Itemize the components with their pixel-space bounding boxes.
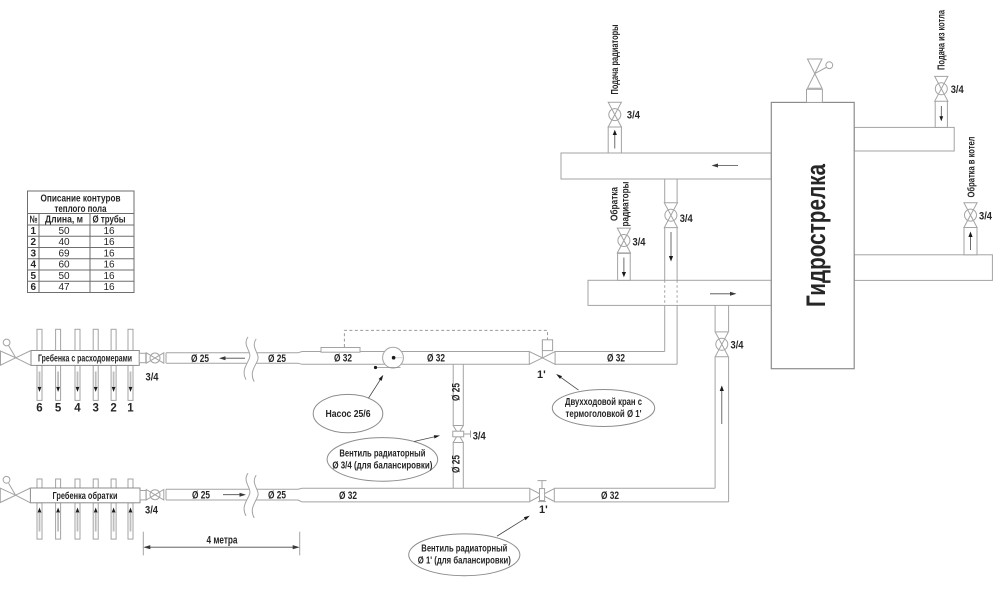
label 1' under two-way valve <box>537 369 546 381</box>
Ø labels on supply line <box>191 353 209 365</box>
pipe: floor heating supply Ø25 (manifold to break) <box>166 353 298 363</box>
svg-text:3/4: 3/4 <box>680 213 694 225</box>
svg-text:1': 1' <box>537 369 546 381</box>
callout: Вентиль радиаторный Ø 1' <box>409 516 530 576</box>
drain valve left (bowtie + handle) <box>0 476 30 502</box>
vertical label: Обратка в котел <box>966 137 978 198</box>
sensor pocket on supply pipe <box>321 348 360 353</box>
svg-text:16: 16 <box>103 282 115 293</box>
bottom stubs with up arrows <box>37 503 133 539</box>
svg-text:Ø 32: Ø 32 <box>607 353 625 365</box>
small pointer dot-line under pump <box>374 366 401 369</box>
callout: Двухходовой кран с термоголовкой <box>552 374 654 427</box>
svg-text:2: 2 <box>31 237 37 248</box>
svg-text:Описание контуров: Описание контуров <box>41 194 121 205</box>
svg-text:4: 4 <box>74 403 81 415</box>
pipe: boiler return (lower right horizontal) <box>854 255 992 281</box>
bottom stubs with flow arrows <box>37 365 133 400</box>
valve 3/4 on mid vertical pipe <box>664 203 677 228</box>
svg-text:Гребенка обратки: Гребенка обратки <box>53 490 118 502</box>
callout: Вентиль радиаторный Ø 3/4 <box>327 435 440 481</box>
svg-text:16: 16 <box>103 260 115 271</box>
svg-text:16: 16 <box>103 271 115 282</box>
valve 3/4 manifold return <box>146 490 164 501</box>
dimension 4 метра <box>143 532 299 556</box>
callout: Насос 25/6 <box>313 375 383 433</box>
svg-text:6: 6 <box>31 282 37 293</box>
svg-text:3: 3 <box>92 403 98 415</box>
svg-text:4 метра: 4 метра <box>207 535 239 547</box>
svg-text:термоголовкой Ø 1': термоголовкой Ø 1' <box>566 409 642 420</box>
pipe break symbol on supply <box>244 337 258 382</box>
svg-text:6: 6 <box>36 403 42 415</box>
svg-text:1': 1' <box>539 504 548 516</box>
svg-text:1: 1 <box>31 226 37 237</box>
manifold: Гребенка обратки <box>0 476 164 539</box>
label 1' under return valve <box>539 504 548 516</box>
valve 3/4 on Обратка радиаторы <box>617 228 630 253</box>
pipe: supply Ø32 right segment with elbow to mid vertical <box>555 352 677 365</box>
svg-text:16: 16 <box>103 237 115 248</box>
svg-text:Ø 25: Ø 25 <box>192 490 210 502</box>
svg-text:Подача из котла: Подача из котла <box>937 10 948 70</box>
valve 3/4 on Подача из котла <box>935 76 948 101</box>
svg-text:2: 2 <box>110 403 116 415</box>
taper Ø25 to Ø32 <box>298 352 302 365</box>
svg-text:16: 16 <box>103 249 115 260</box>
svg-text:50: 50 <box>58 226 70 237</box>
top stubs <box>37 329 42 350</box>
svg-text:40: 40 <box>58 237 70 248</box>
svg-text:Ø 32: Ø 32 <box>334 353 352 365</box>
flow arrow left in radiator supply pipe <box>712 164 739 168</box>
stub pipe: Подача из котла <box>935 101 947 127</box>
vertical pipe: floor heating return riser (right) <box>715 305 729 502</box>
manifold body <box>30 488 140 503</box>
svg-text:Длина, м: Длина, м <box>45 215 83 226</box>
svg-text:3: 3 <box>31 249 37 260</box>
svg-text:Ø 1' (для балансировки): Ø 1' (для балансировки) <box>418 555 511 567</box>
flow arrow right in return Ø25 <box>223 493 246 497</box>
air vent stub on separator top <box>807 89 823 102</box>
svg-text:Ø 25: Ø 25 <box>268 353 286 365</box>
svg-text:Ø трубы: Ø трубы <box>93 214 126 226</box>
pipe: boiler supply (upper right horizontal) <box>854 127 954 151</box>
svg-text:3/4: 3/4 <box>627 110 641 122</box>
svg-text:Ø 25: Ø 25 <box>268 490 286 502</box>
pipe: return Ø32 right segment with elbow up <box>554 488 728 502</box>
vertical label: Подача радиаторы <box>610 25 621 95</box>
svg-text:60: 60 <box>58 260 70 271</box>
balancing valve 3/4 on branch (bowtie with stem) <box>453 426 471 443</box>
svg-text:Ø 32: Ø 32 <box>601 490 619 502</box>
pipe: floor heating supply Ø32 <box>302 352 529 365</box>
svg-text:16: 16 <box>103 226 115 237</box>
valve 3/4 on Подача радиаторы <box>608 102 621 127</box>
svg-text:3/4: 3/4 <box>633 237 647 249</box>
valve 3/4 on return riser <box>715 332 728 357</box>
svg-text:радиаторы: радиаторы <box>621 182 632 227</box>
flow arrow left in supply Ø25 <box>219 356 245 360</box>
Ø labels on return line <box>192 490 210 502</box>
table text <box>30 194 126 294</box>
svg-text:Обратка в котел: Обратка в котел <box>966 137 978 198</box>
svg-text:Ø 25: Ø 25 <box>191 353 209 365</box>
stub pipe: Подача радиаторы <box>608 127 621 153</box>
svg-text:4: 4 <box>31 260 37 271</box>
svg-text:№: № <box>30 215 38 226</box>
stub pipe: Обратка радиаторы <box>618 253 631 280</box>
svg-text:50: 50 <box>58 271 70 282</box>
vertical label: Обратка радиаторы (2 lines) <box>609 182 632 227</box>
svg-text:Подача радиаторы: Подача радиаторы <box>610 25 621 95</box>
svg-text:Вентиль радиаторный: Вентиль радиаторный <box>421 544 507 555</box>
pipe break symbol on return <box>244 473 258 518</box>
svg-text:3/4: 3/4 <box>145 505 159 517</box>
svg-text:3/4: 3/4 <box>473 431 487 443</box>
svg-text:3/4: 3/4 <box>146 372 160 384</box>
svg-text:Ø 32: Ø 32 <box>427 353 445 365</box>
vertical labels Ø 25 on branch <box>451 383 463 401</box>
svg-text:Насос 25/6: Насос 25/6 <box>326 409 371 420</box>
two-way valve with thermo head (bowtie) <box>529 340 555 365</box>
pipe: floor heating return Ø25 (manifold to break) <box>166 489 298 500</box>
svg-text:Двухходовой кран с: Двухходовой кран с <box>565 397 642 408</box>
valve 3/4 on Обратка в котел <box>964 203 977 228</box>
svg-text:Гидрострелка: Гидрострелка <box>801 163 831 307</box>
svg-text:Ø 25: Ø 25 <box>451 455 463 473</box>
svg-text:Обратка: Обратка <box>609 187 621 221</box>
drain valve left (bowtie + handle) <box>1 339 32 365</box>
vertical branch pipe Ø25 (supply to return bypass) <box>453 364 463 488</box>
manifold body <box>31 351 139 366</box>
taper Ø25 to Ø32 on return <box>298 488 302 502</box>
svg-text:Вентиль радиаторный: Вентиль радиаторный <box>339 449 425 460</box>
outlet taper right <box>139 353 146 362</box>
top stubs <box>37 479 42 488</box>
svg-text:3/4: 3/4 <box>951 84 965 96</box>
svg-text:теплого пола: теплого пола <box>55 204 107 215</box>
svg-text:3/4: 3/4 <box>979 211 993 223</box>
svg-text:Ø 3/4 (для балансировки): Ø 3/4 (для балансировки) <box>332 460 432 472</box>
valve 3/4 manifold supply <box>146 353 164 363</box>
vertical label: Подача из котла <box>937 10 948 70</box>
air vent valve (hourglass with handle circle) <box>808 59 833 88</box>
vertical pipe: from radiator supply header down to floor-heating supply <box>665 179 677 364</box>
stub pipe: Обратка в котел <box>964 228 977 255</box>
svg-text:5: 5 <box>31 271 37 282</box>
pump Насос 25/6 <box>383 347 404 368</box>
svg-text:47: 47 <box>58 282 70 293</box>
capillary dashed line sensor to thermo head <box>344 330 547 347</box>
pipe: radiator return header (lower left horizontal) <box>588 280 771 305</box>
svg-text:5: 5 <box>55 403 62 415</box>
svg-text:69: 69 <box>58 249 70 260</box>
svg-text:Ø 25: Ø 25 <box>451 383 463 401</box>
hydraulic separator Гидрострелка <box>771 102 854 368</box>
balancing valve 1' on return (bowtie with stem handle) <box>530 481 555 502</box>
manifold: Гребенка с расходомерами <box>1 329 164 414</box>
svg-text:3/4: 3/4 <box>731 340 745 352</box>
pipe: floor heating return Ø32 <box>302 488 530 502</box>
table: floor heating circuits description <box>28 191 135 293</box>
svg-text:Гребенка с расходомерами: Гребенка с расходомерами <box>38 353 132 365</box>
numbers under loops <box>36 403 134 415</box>
pipe: radiator supply header (upper left horizontal) <box>561 153 771 179</box>
outlet taper right <box>140 491 146 500</box>
svg-text:1: 1 <box>127 403 134 415</box>
flow arrow right in radiator return pipe <box>710 292 737 296</box>
svg-text:Ø 32: Ø 32 <box>339 490 357 502</box>
